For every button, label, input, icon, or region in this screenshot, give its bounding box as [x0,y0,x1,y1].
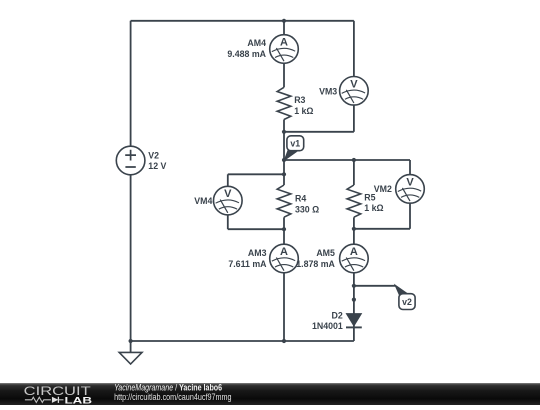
svg-text:D2: D2 [332,311,343,321]
wire VM4 bottom horizontal [228,228,284,230]
node junction R3/VM3 [282,130,286,134]
resistor R3 [277,87,313,119]
svg-text:VM2: VM2 [374,184,392,194]
wire R3 to VM3 horizontal [284,131,354,133]
svg-text:V: V [224,188,232,200]
node junction diode top [352,298,356,302]
ammeter AM3 [228,244,298,273]
diode D2 [312,311,362,332]
wire middle column R4 bottom to bottom rail [283,217,285,341]
svg-text:9.488 mA: 9.488 mA [227,49,266,59]
wire VM4 top horizontal [228,173,284,175]
voltage source V2 [116,146,166,175]
svg-text:AM5: AM5 [316,248,335,258]
ammeter AM4 [227,35,298,64]
resistor R4 [277,185,319,217]
svg-text:7.611 mA: 7.611 mA [228,259,267,269]
svg-text:R4: R4 [295,194,306,204]
svg-text:VM4: VM4 [194,196,212,206]
svg-text:1N4001: 1N4001 [312,321,343,331]
node tag v2 [395,285,415,310]
node junction VM2 bottom [352,227,356,231]
wire v2 stub horizontal [354,285,396,287]
wire v1 to VM2 horizontal [284,159,410,161]
CircuitLab logo resistor-diode glyph [25,397,64,403]
svg-text:V2: V2 [148,151,159,161]
wire R5 bottom through AM5 to diode and bottom rail [353,217,355,341]
svg-text:1.878 mA: 1.878 mA [296,259,335,269]
wire middle column upper (AM4 lead) [283,21,285,88]
svg-text:V: V [406,176,414,188]
wire R5 column [353,160,355,185]
svg-text:v2: v2 [402,297,412,307]
node junction v2 [352,284,356,288]
node junction ground [129,339,133,343]
svg-text:http://circuitlab.com/caun4ucf: http://circuitlab.com/caun4ucf97mmg [114,392,231,402]
wire VM2 bottom horizontal [354,228,410,230]
wire left vertical (V2 branch) [130,21,132,341]
svg-text:330 Ω: 330 Ω [295,205,319,215]
svg-text:1 kΩ: 1 kΩ [364,203,383,213]
svg-text:A: A [280,37,288,49]
ammeter AM5 [296,244,368,273]
svg-text:12 V: 12 V [148,161,166,171]
footer bar [0,383,540,405]
svg-text:1 kΩ: 1 kΩ [294,106,313,116]
voltmeter VM3 [319,77,368,106]
wire VM4 vertical [227,174,229,229]
node tag v1 [284,136,303,161]
resistor R5 [347,185,383,217]
voltmeter VM4 [194,186,242,215]
svg-text:R5: R5 [364,193,375,203]
wire bottom rail [131,340,354,342]
CircuitLab logo wordmark [24,384,92,406]
node junction R5 top [352,158,356,162]
svg-text:LAB: LAB [65,395,93,405]
wire top horizontal [131,20,354,22]
svg-text:v1: v1 [290,139,300,149]
svg-text:AM3: AM3 [248,248,267,258]
node junction top (AM4 branch) [282,19,286,23]
svg-text:A: A [350,246,358,258]
svg-text:VM3: VM3 [319,86,337,96]
wire VM2 vertical [409,160,411,229]
svg-text:A: A [280,246,288,258]
svg-text:V: V [350,78,358,90]
svg-text:AM4: AM4 [247,38,266,48]
node junction VM4 top [282,172,286,176]
node junction AM3 bottom rail [282,339,286,343]
node junction VM4 bottom [282,227,286,231]
node junction v1 [282,158,286,162]
ground [119,341,142,364]
wire middle column R3 bottom to v1 [283,120,285,186]
footer credits [114,383,231,402]
voltmeter VM2 [374,175,424,204]
svg-text:R3: R3 [294,95,305,105]
wire VM3 vertical [353,21,355,132]
